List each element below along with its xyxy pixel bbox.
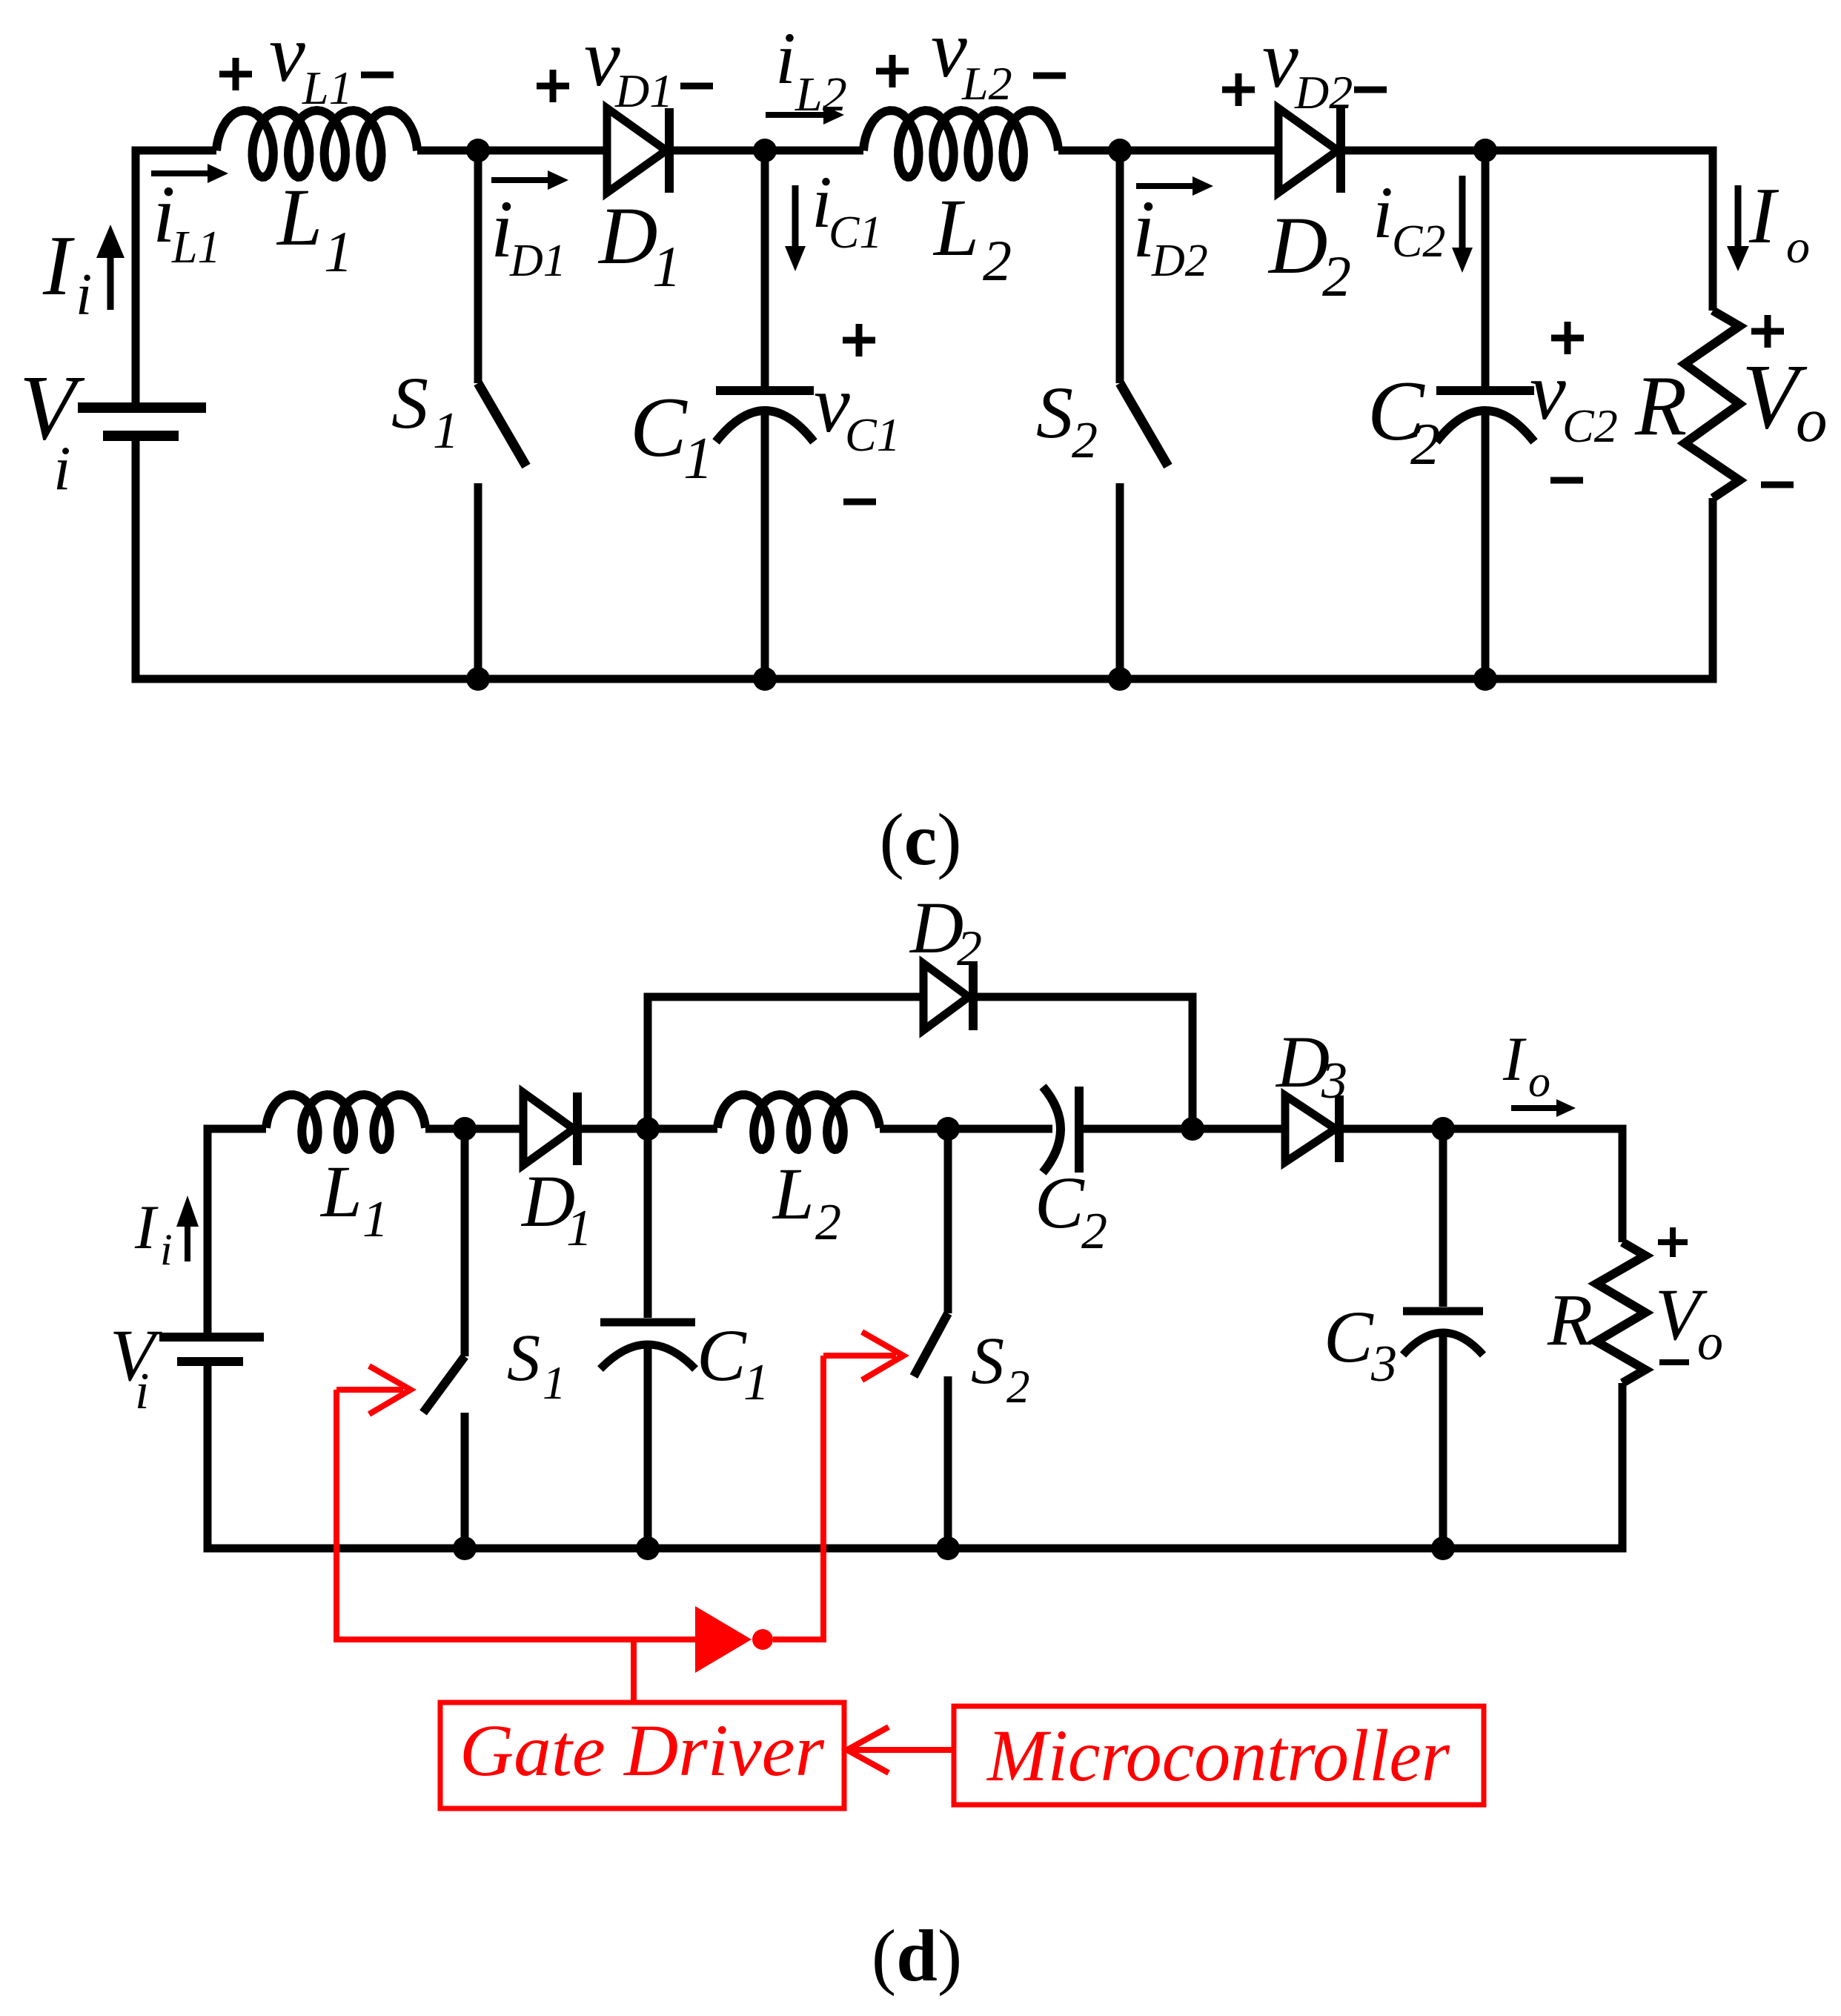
current arrow iC2 — [1459, 176, 1466, 248]
svg-text:i: i — [135, 1363, 149, 1420]
red gate wire to S1 — [336, 1390, 695, 1639]
svg-text:C: C — [1324, 1296, 1374, 1378]
svg-text:i: i — [160, 1225, 173, 1274]
svg-text:1: 1 — [743, 1354, 769, 1411]
svg-text:1: 1 — [433, 402, 459, 460]
svg-text:o: o — [1528, 1057, 1550, 1106]
svg-text:v: v — [1530, 346, 1566, 437]
wire bottom rail (c) — [136, 440, 1713, 679]
svg-text:I: I — [1502, 1024, 1527, 1094]
current arrow iD1 — [491, 177, 548, 183]
wire D1 to L2 (d) — [582, 1125, 717, 1133]
wire L1 to D1 (d) — [425, 1125, 523, 1133]
svg-text:(d): (d) — [872, 1914, 962, 1997]
capacitor C1 (d) — [600, 1319, 695, 1327]
svg-text:I: I — [134, 1193, 159, 1262]
label vC1 plus — [843, 324, 875, 357]
node S2 top junction — [1108, 139, 1132, 162]
svg-text:L: L — [276, 172, 322, 262]
node C3 bottom (d) — [1431, 1536, 1455, 1560]
wire top rail (d) left — [208, 1129, 266, 1333]
node D2 right junction (d) — [1181, 1117, 1204, 1141]
svg-text:R: R — [1634, 359, 1687, 453]
capacitor C1 (c) branch lower — [761, 414, 769, 679]
node S2 bottom (d) — [936, 1536, 960, 1560]
svg-text:C: C — [630, 380, 688, 474]
svg-text:o: o — [1697, 1314, 1723, 1371]
switch S2 (d) — [944, 1129, 952, 1313]
svg-text:i: i — [53, 434, 71, 503]
svg-text:v: v — [1262, 14, 1298, 105]
red gate arrow S2 — [823, 1353, 896, 1359]
capacitor C3 (d) branch upper — [1439, 1129, 1447, 1307]
switch S1 (c) — [474, 150, 482, 383]
svg-text:L2: L2 — [795, 67, 847, 122]
wire bottom rail (d) — [208, 1366, 1622, 1548]
node D1-C1-D2 junction (d) — [636, 1117, 660, 1141]
capacitor C2 (d) — [1043, 1087, 1061, 1173]
current arrow iL1 — [151, 170, 208, 176]
current arrow iD2 — [1136, 183, 1192, 189]
inductor L1 (d) — [266, 1095, 425, 1150]
switch S1 (d) — [461, 1129, 469, 1356]
svg-text:S: S — [391, 362, 428, 444]
inductor L2 (c) — [863, 110, 1058, 177]
svg-text:C2: C2 — [1562, 399, 1618, 452]
svg-text:L: L — [772, 1153, 815, 1235]
capacitor C1 (d) branch lower — [644, 1347, 652, 1548]
wire L1 to D1 through node — [417, 147, 607, 155]
node C2 top junction — [1473, 139, 1497, 162]
label vL1 plus — [219, 58, 252, 90]
svg-text:1: 1 — [683, 426, 713, 491]
svg-text:i: i — [1373, 171, 1393, 253]
svg-text:o: o — [1786, 220, 1810, 273]
node S1 bottom — [466, 667, 490, 691]
svg-text:D2: D2 — [1151, 236, 1208, 286]
wire top rail left segment (c) — [136, 150, 216, 404]
resistor R (d) — [1596, 1242, 1645, 1383]
inductor L1 (c) — [216, 110, 417, 177]
red wire gate driver to inverter line — [631, 1639, 637, 1702]
wire L2 to C2 (d) — [880, 1125, 1052, 1133]
label vD1 plus — [537, 70, 569, 102]
svg-text:1: 1 — [543, 1357, 566, 1409]
svg-text:i: i — [76, 262, 92, 328]
label vC2 minus — [1550, 477, 1583, 484]
svg-text:Gate Driver: Gate Driver — [460, 1709, 825, 1791]
label vD2 plus — [1222, 73, 1255, 106]
svg-text:2: 2 — [1072, 412, 1098, 469]
red inverter gate — [695, 1606, 752, 1673]
label vD1 minus — [680, 83, 713, 90]
node C3 top junction (d) — [1431, 1117, 1455, 1141]
capacitor C2 (c) branch upper — [1482, 150, 1490, 386]
red gate arrow S1 — [336, 1387, 403, 1393]
label vD2 minus — [1354, 87, 1387, 93]
diode D3 (d) — [1285, 1095, 1336, 1162]
inductor L2 (d) — [717, 1095, 880, 1150]
svg-text:I: I — [42, 219, 75, 313]
svg-text:i: i — [775, 17, 796, 99]
switch S2 (c) — [1116, 150, 1124, 383]
svg-text:2: 2 — [1410, 412, 1440, 477]
current arrow Ii (d) — [185, 1227, 190, 1261]
svg-text:C1: C1 — [829, 208, 882, 258]
node S1 top junction — [466, 139, 490, 162]
svg-text:3: 3 — [1370, 1336, 1397, 1393]
svg-text:S: S — [507, 1322, 540, 1395]
svg-text:2: 2 — [1322, 244, 1351, 308]
diode D1 — [607, 108, 666, 193]
current arrow Io (d) — [1511, 1105, 1556, 1111]
svg-text:D2: D2 — [1294, 66, 1353, 119]
bypass riser left (d) — [648, 997, 923, 1129]
capacitor C1 (d) branch upper — [644, 1129, 652, 1318]
diode D2 (d) — [923, 964, 969, 1030]
current arrow iC1 — [792, 185, 799, 246]
microcontroller box — [954, 1706, 1484, 1805]
node L2-S2 junction (d) — [936, 1117, 960, 1141]
svg-text:2: 2 — [815, 1194, 841, 1251]
current arrow Ii (c) — [107, 258, 114, 310]
label Vo plus (d) — [1658, 1227, 1688, 1257]
label vL2 plus — [876, 55, 909, 87]
svg-text:(c): (c) — [879, 798, 961, 881]
node L1-D1-S1 junction (d) — [453, 1117, 477, 1141]
battery Vi (d) — [159, 1333, 264, 1342]
wire C2 to D3 (d) — [1084, 1125, 1285, 1133]
label vL2 minus — [1033, 73, 1066, 79]
node S1 bottom (d) — [453, 1536, 477, 1560]
svg-text:L1: L1 — [302, 62, 353, 114]
svg-text:L1: L1 — [171, 222, 220, 273]
node C1 bottom — [753, 667, 777, 691]
label vC2 plus — [1551, 322, 1584, 354]
wire D2 to right corner — [1345, 150, 1713, 311]
label Vo minus (c) — [1761, 482, 1794, 488]
node C2 bottom — [1473, 667, 1497, 691]
svg-text:S: S — [1036, 371, 1073, 454]
label Vo minus (d) — [1659, 1359, 1689, 1365]
svg-text:1: 1 — [362, 1191, 388, 1248]
svg-text:2: 2 — [957, 920, 982, 976]
svg-text:2: 2 — [1081, 1203, 1107, 1260]
svg-text:C2: C2 — [1392, 216, 1445, 267]
svg-text:1: 1 — [324, 219, 353, 284]
capacitor C2 (c) — [1436, 386, 1534, 395]
label vL1 minus — [361, 72, 394, 79]
capacitor C1 (c) — [716, 386, 814, 395]
bypass rail right segment (d) — [978, 997, 1192, 1129]
svg-text:D1: D1 — [614, 64, 673, 117]
svg-text:L2: L2 — [961, 57, 1012, 110]
node C1 top junction — [753, 139, 777, 162]
svg-text:D: D — [1267, 200, 1327, 291]
diode D2 — [1278, 108, 1338, 193]
current arrow Io (c) — [1735, 185, 1742, 246]
svg-text:D: D — [597, 190, 657, 281]
svg-text:L: L — [932, 182, 979, 273]
wire D1 to node C1 — [674, 147, 863, 155]
resistor R (c) — [1685, 311, 1739, 498]
node S2 bottom — [1108, 667, 1132, 691]
red wire inverter to S2 riser — [773, 1356, 823, 1639]
svg-text:o: o — [1796, 385, 1828, 455]
svg-text:C1: C1 — [845, 408, 900, 461]
node C1 bottom (d) — [636, 1536, 660, 1560]
svg-text:D1: D1 — [509, 236, 566, 286]
svg-text:2: 2 — [983, 228, 1012, 293]
svg-text:C: C — [697, 1314, 747, 1396]
svg-text:1: 1 — [652, 234, 681, 299]
svg-text:L: L — [319, 1150, 362, 1233]
svg-text:v: v — [269, 8, 305, 99]
svg-text:C: C — [1035, 1161, 1085, 1244]
current arrow iL2 — [766, 112, 823, 118]
capacitor C3 (d) branch lower — [1439, 1334, 1447, 1548]
diode D1 (d) — [523, 1092, 574, 1165]
label vC1 minus — [843, 499, 876, 505]
svg-text:1: 1 — [566, 1200, 592, 1257]
svg-text:2: 2 — [1006, 1361, 1030, 1413]
wire L2 to D2 through node — [1058, 147, 1278, 155]
svg-text:I: I — [1748, 172, 1779, 260]
wire D3 to right corner (d) — [1344, 1129, 1622, 1242]
arrow microcontroller to gate driver — [852, 1747, 954, 1753]
battery Vi (c) — [78, 402, 206, 413]
capacitor C3 (d) — [1403, 1307, 1483, 1316]
capacitor C1 (c) branch upper — [761, 150, 769, 386]
svg-text:V: V — [19, 357, 85, 460]
svg-text:Microcontroller: Microcontroller — [986, 1714, 1450, 1797]
capacitor C2 (c) branch lower — [1482, 414, 1490, 679]
gate driver box — [440, 1702, 844, 1808]
svg-text:3: 3 — [1321, 1052, 1347, 1110]
svg-text:D: D — [909, 886, 963, 969]
label Vo plus (c) — [1751, 315, 1784, 348]
svg-text:R: R — [1547, 1279, 1593, 1361]
svg-text:S: S — [971, 1324, 1004, 1398]
